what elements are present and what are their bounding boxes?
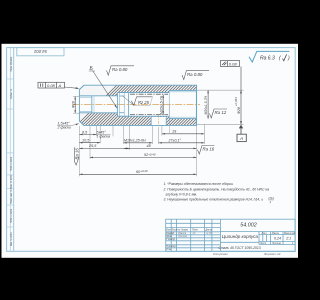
bore bottom line right section xyxy=(169,118,196,120)
neck bore lines xyxy=(119,95,124,97)
top-left rotated designation box xyxy=(17,48,64,56)
roughness Rz 25 inside bore on leader xyxy=(123,96,153,106)
svg-text:Петров: Петров xyxy=(178,235,188,238)
svg-text:Формат А4: Формат А4 xyxy=(264,252,281,256)
top wall hatched band left xyxy=(79,85,117,96)
top wall hatched band groove xyxy=(117,85,128,92)
svg-text:Дата: Дата xyxy=(205,229,213,232)
hatch fill xyxy=(74,82,277,128)
dim 52+0.40 xyxy=(90,152,197,158)
svg-text:Инв. № дубл.: Инв. № дубл. xyxy=(10,174,13,188)
svg-text:0,24: 0,24 xyxy=(274,237,281,241)
title block small texts xyxy=(166,229,212,252)
top wall hatched band chamber xyxy=(129,85,170,92)
bore bottom line left section xyxy=(79,112,117,114)
roughness Ra 16 bottom middle xyxy=(198,146,215,155)
svg-text:Масса: Масса xyxy=(272,232,280,235)
dim 18H9 inner rotated xyxy=(159,95,166,115)
svg-text:глубину h=0,8-1 мм.: глубину h=0,8-1 мм. xyxy=(166,193,198,197)
frame outer border xyxy=(7,48,296,252)
svg-text:10,5: 10,5 xyxy=(82,139,90,143)
sheet xyxy=(2,44,299,258)
roughness Ra 16 rotated left xyxy=(74,147,79,165)
extension lines gray xyxy=(79,90,243,176)
roughness Ra 0.80 #1 xyxy=(107,66,135,75)
svg-text:+0,40: +0,40 xyxy=(148,152,156,156)
svg-text:№ докум.: № докум. xyxy=(178,229,189,232)
dim 8.5 xyxy=(79,130,96,135)
svg-text:+0,20: +0,20 xyxy=(141,169,149,173)
svg-text:IT14: IT14 xyxy=(269,196,275,200)
svg-text:Т.контр.: Т.контр. xyxy=(166,238,176,241)
svg-text:Копировал: Копировал xyxy=(213,252,228,256)
svg-text:2. Поверхность Б цементировать: 2. Поверхность Б цементировать. На тверд… xyxy=(163,188,270,192)
chamfer edge lines left xyxy=(79,85,84,89)
svg-text:12.05: 12.05 xyxy=(206,232,213,235)
svg-text:0.08: 0.08 xyxy=(229,61,238,66)
svg-text:Rz 25: Rz 25 xyxy=(138,100,150,105)
thread minor lines left opening xyxy=(79,96,91,98)
thread minor lines right opening xyxy=(169,91,196,93)
svg-text:М20х1,5-7Н: М20х1,5-7Н xyxy=(204,95,208,114)
svg-text:): ) xyxy=(287,56,290,62)
svg-text:3. Неуказанные предельные откл: 3. Неуказанные предельные отклонения раз… xyxy=(164,198,264,202)
label B leader xyxy=(93,71,118,109)
svg-text:А: А xyxy=(239,136,243,141)
bore top line right section xyxy=(169,89,196,91)
tolerance frame parallel left xyxy=(38,82,79,89)
svg-text:Ra 16: Ra 16 xyxy=(75,148,80,160)
dim M20x1.5-7H right rotated xyxy=(204,90,209,118)
svg-text:М20х1,5-7Н: М20х1,5-7Н xyxy=(159,95,163,114)
bore top line left section xyxy=(79,95,117,97)
svg-text:Инв. № подл.: Инв. № подл. xyxy=(10,232,13,247)
svg-text:Ra 0.80: Ra 0.80 xyxy=(112,67,128,72)
part outline xyxy=(79,85,196,125)
radial hole white gap in bottom band xyxy=(151,117,166,125)
chamber bore bottom line xyxy=(117,115,169,117)
svg-text:0.08: 0.08 xyxy=(47,83,56,88)
svg-text:1. *Размеры обеспечиваются пос: 1. *Размеры обеспечиваются после сборки. xyxy=(164,182,234,186)
cementation thick line top (surface B) xyxy=(130,93,168,95)
dim M12 port xyxy=(124,139,153,144)
cementation thick line bottom xyxy=(130,114,168,116)
svg-text:25,5: 25,5 xyxy=(88,144,97,148)
tolerance frame runout top right xyxy=(221,61,240,67)
title block outer xyxy=(166,219,295,251)
svg-text:8,5: 8,5 xyxy=(82,130,88,134)
svg-text:Сталь 45 ГОСТ 1050-2013: Сталь 45 ГОСТ 1050-2013 xyxy=(218,246,260,250)
svg-text:Изм: Изм xyxy=(166,229,171,232)
dim 10.5 xyxy=(79,139,100,144)
frame inner left line xyxy=(13,48,15,252)
svg-text:27±0,1°: 27±0,1° xyxy=(168,139,182,143)
svg-text:Ra 6.3: Ra 6.3 xyxy=(260,56,275,62)
dim d28 right rotated with datum xyxy=(234,67,247,142)
counterbore step line xyxy=(168,90,170,118)
svg-text:+0,084: +0,084 xyxy=(234,97,238,106)
label 5x45 1 faska xyxy=(96,131,110,139)
svg-text:Ra 0.80: Ra 0.80 xyxy=(187,72,203,77)
svg-text:Ra 12: Ra 12 xyxy=(215,110,227,115)
bottom wall hatched band left xyxy=(79,113,196,126)
title block verticals left section xyxy=(170,219,172,251)
svg-text:Взам. инв. №: Взам. инв. № xyxy=(10,189,13,204)
svg-text:54.002: 54.002 xyxy=(240,223,257,229)
svg-text:Масштаб: Масштаб xyxy=(284,232,296,235)
svg-text:Подп.: Подп. xyxy=(192,229,199,232)
svg-text:Ra 16: Ra 16 xyxy=(203,147,215,152)
svg-text:2 фаски: 2 фаски xyxy=(57,126,72,130)
dim 25.5 xyxy=(79,144,129,149)
thread end line left opening xyxy=(91,96,93,113)
dim 60.2 overall xyxy=(79,169,196,175)
roughness legend top-right xyxy=(249,51,290,62)
centerline xyxy=(73,104,201,106)
dim 48 xyxy=(124,144,197,149)
dim 19 xyxy=(162,130,204,135)
svg-text:А: А xyxy=(58,83,62,88)
svg-text:Лист: Лист xyxy=(259,242,266,245)
roughness Ra 12 right xyxy=(210,109,228,118)
groove left edge double line xyxy=(117,93,119,117)
svg-text:54.002: 54.002 xyxy=(33,49,46,54)
label 1.5x45 2 faski xyxy=(57,121,79,129)
top wall hatched band right xyxy=(169,85,196,90)
roughness Ra 0.80 #2 xyxy=(182,71,209,80)
svg-text:2:1: 2:1 xyxy=(285,237,291,241)
left margin cell lines xyxy=(7,79,14,227)
svg-text:Ф28: Ф28 xyxy=(237,107,241,114)
left margin rotated labels xyxy=(10,56,13,246)
chamber bore top line xyxy=(117,92,169,94)
dim 27+-0.1 xyxy=(159,139,205,144)
radial hole edges xyxy=(150,117,152,125)
svg-text:Цилиндр корпуса: Цилиндр корпуса xyxy=(222,234,259,239)
svg-text:Листов: Листов xyxy=(271,242,281,245)
svg-text:Утв.: Утв. xyxy=(166,248,172,251)
lit massa masshtab headers xyxy=(259,232,296,245)
right end face double line xyxy=(196,85,198,125)
svg-text:Справ. №: Справ. № xyxy=(10,88,13,99)
svg-text:Лист: Лист xyxy=(171,229,178,232)
svg-text:1 фаска: 1 фаска xyxy=(97,135,111,139)
radial hole axis xyxy=(158,115,160,128)
svg-text:Перв. примен.: Перв. примен. xyxy=(11,56,13,72)
svg-text:Подп. и дата: Подп. и дата xyxy=(10,208,13,223)
dim M20x1.5-7H left rotated xyxy=(71,96,79,113)
left margin column divider xyxy=(9,48,11,252)
svg-text:Подп. и дата: Подп. и дата xyxy=(10,156,13,171)
svg-text:Ф16: Ф16 xyxy=(71,101,75,108)
groove right edge double line xyxy=(123,93,125,117)
designation cell bottom xyxy=(220,231,295,233)
svg-text:Лит.: Лит. xyxy=(261,232,268,235)
datum A triangle xyxy=(239,125,243,129)
svg-text:М10х1,25-6Н: М10х1,25-6Н xyxy=(124,139,146,143)
right section lines xyxy=(258,232,260,245)
title block horizontals left section xyxy=(166,222,221,224)
